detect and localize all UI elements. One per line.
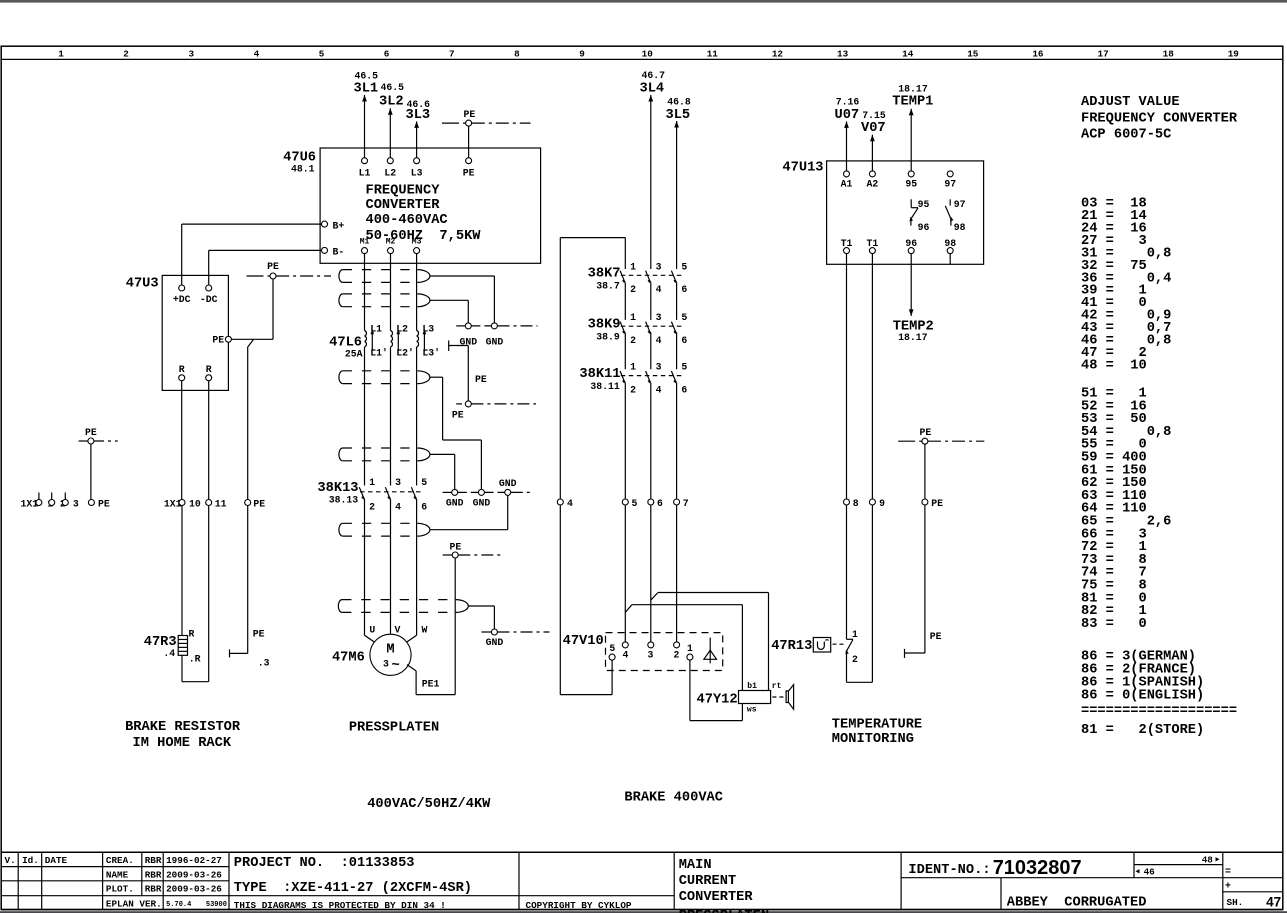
svg-text:2009-03-26: 2009-03-26: [166, 884, 222, 895]
svg-text:400VAC/50HZ/4KW: 400VAC/50HZ/4KW: [367, 797, 491, 812]
svg-text:1: 1: [687, 643, 693, 654]
svg-text:V.: V.: [5, 855, 16, 866]
47U13 pin 96: [908, 248, 914, 254]
svg-text:M2: M2: [386, 237, 396, 246]
wire 4 to 47V10 pin5: [560, 694, 612, 696]
svg-text:81 = 2(STORE): 81 = 2(STORE): [1081, 723, 1204, 738]
wire PE right horizontal: [905, 652, 925, 654]
svg-text:3: 3: [189, 48, 195, 59]
wire bank col3 segment (3L5): [676, 383, 678, 499]
svg-text:L1: L1: [359, 168, 371, 179]
svg-text:RBR: RBR: [145, 869, 162, 880]
wire duct2 GND vertical: [467, 300, 469, 323]
wire M1 seg2: [364, 347, 366, 486]
wire 3L1 to 47U6 L1: [364, 95, 366, 158]
47U6 pin M1: [362, 248, 368, 254]
wire duct2 to GND: [430, 299, 468, 301]
terminal 1X1:1: [36, 500, 42, 506]
box 47U13: [827, 161, 984, 264]
svg-text:46.7: 46.7: [642, 70, 666, 81]
cable duct 1: [339, 270, 430, 283]
PE right line dash-dot: [928, 440, 984, 442]
wire duct3 to GND row2: [480, 440, 482, 489]
wire PE .3 horizontal: [230, 652, 248, 654]
47U3 pin R right: [206, 375, 212, 381]
wire duct6 right: [468, 605, 494, 607]
wire 7 lower to 47V10 pin2: [676, 505, 678, 642]
svg-text:9: 9: [879, 498, 885, 509]
svg-text:15: 15: [967, 48, 979, 59]
arrow 3L1: [362, 95, 367, 102]
wire pin1 down: [689, 660, 691, 721]
svg-text:53900: 53900: [206, 901, 227, 909]
svg-text:RBR: RBR: [145, 884, 162, 895]
node 7: [674, 499, 680, 505]
wire PE left down: [90, 444, 92, 499]
svg-text:3: 3: [73, 498, 79, 509]
svg-text:6: 6: [681, 335, 687, 346]
node PE on wire: [922, 499, 928, 505]
wire below 47R13 contact: [846, 652, 848, 682]
svg-text:SH.: SH.: [1227, 897, 1244, 908]
GND node row 2: [443, 491, 452, 493]
svg-text:2: 2: [123, 48, 129, 59]
title col CREA/RBR divider: [141, 852, 143, 896]
wire pin1 to ws: [690, 720, 743, 722]
47U6 pin L1: [362, 158, 368, 164]
motor 47M6 circle: [370, 634, 411, 675]
svg-text:V: V: [395, 624, 401, 635]
node 4: [557, 499, 563, 505]
svg-text:48 = 10: 48 = 10: [1081, 359, 1147, 374]
svg-text:CURRENT: CURRENT: [679, 874, 737, 889]
svg-text:18.17: 18.17: [898, 332, 928, 343]
svg-text:7.16: 7.16: [836, 97, 860, 108]
svg-text:R: R: [189, 629, 195, 640]
svg-text:NAME: NAME: [106, 869, 129, 880]
wire duct5 right: [430, 529, 508, 531]
svg-text:=: =: [1225, 866, 1231, 877]
svg-text:3L5: 3L5: [666, 108, 691, 123]
svg-text:PE: PE: [463, 168, 475, 179]
svg-text:DATE: DATE: [45, 855, 68, 866]
svg-text:U: U: [369, 624, 375, 635]
wire TEMP1 to 95: [910, 109, 912, 171]
svg-text:PE: PE: [85, 427, 97, 438]
svg-text:RBR: RBR: [145, 855, 162, 866]
PE left line right: [94, 440, 118, 442]
cable duct 4: [339, 448, 430, 461]
svg-text:10: 10: [189, 498, 201, 509]
47R13 linkage dashes: [833, 643, 846, 645]
svg-text:TEMPERATURE: TEMPERATURE: [832, 717, 922, 732]
svg-text:14: 14: [902, 48, 914, 59]
svg-text:V07: V07: [861, 121, 886, 136]
svg-text:46.5: 46.5: [355, 71, 379, 82]
svg-text:-DC: -DC: [200, 294, 218, 305]
svg-text:L3': L3': [422, 347, 440, 358]
wire duct3 down: [442, 377, 444, 440]
svg-text:48.1: 48.1: [291, 164, 315, 175]
svg-text:PRESSPLATEN: PRESSPLATEN: [679, 909, 769, 913]
wire 8 (T1 to 47R13): [846, 254, 848, 640]
svg-text:5: 5: [681, 362, 687, 373]
47U13 pin T1 b: [869, 248, 875, 254]
terminal 1X1:10: [179, 500, 185, 506]
svg-text:1: 1: [369, 477, 375, 488]
svg-text:1: 1: [630, 362, 636, 373]
svg-text:L1': L1': [370, 347, 388, 358]
connector 47V10 dashed box: [606, 633, 723, 671]
svg-text:4: 4: [656, 284, 662, 295]
GND node row 1: [456, 325, 465, 327]
wire PE mid horizontal: [449, 345, 469, 347]
svg-text:MONITORING: MONITORING: [832, 732, 914, 747]
svg-text:46.8: 46.8: [667, 97, 691, 108]
svg-text:PLOT.: PLOT.: [106, 884, 134, 895]
wire bank col2 segment (3L4): [650, 383, 652, 499]
branch diagonal wire A: [651, 593, 658, 601]
svg-text:38.13: 38.13: [329, 495, 359, 506]
arrow 3L3: [414, 121, 419, 128]
resistor 47R3: [178, 636, 187, 656]
svg-text:8: 8: [514, 48, 520, 59]
svg-text:B+: B+: [333, 220, 345, 231]
svg-text:5: 5: [319, 48, 325, 59]
svg-text:GND: GND: [486, 637, 504, 648]
47R13 contact blade: [847, 638, 854, 640]
PE right line left: [898, 440, 922, 442]
node 6: [648, 499, 654, 505]
svg-text:18: 18: [1163, 48, 1175, 59]
svg-text:GND: GND: [473, 498, 491, 509]
svg-text:TEMP1: TEMP1: [892, 95, 933, 110]
arrow TEMP1: [909, 109, 914, 116]
svg-text:COPYRIGHT BY CYKLOP: COPYRIGHT BY CYKLOP: [526, 900, 632, 911]
tick PE right end: [904, 649, 906, 658]
svg-text:4: 4: [254, 48, 260, 59]
svg-text:4: 4: [395, 502, 401, 513]
svg-text:18.17: 18.17: [898, 83, 928, 94]
contact 38K7 5-6: [671, 271, 676, 283]
node 9: [869, 499, 875, 505]
svg-text:83 = 0: 83 = 0: [1081, 617, 1147, 632]
47U3 pin +DC: [179, 285, 185, 291]
svg-text:PE: PE: [267, 261, 279, 272]
svg-text:EPLAN VER.: EPLAN VER.: [106, 899, 162, 910]
svg-text:A2: A2: [867, 179, 879, 190]
PE left line left: [79, 440, 88, 442]
PE top line right dash-dot: [472, 122, 531, 124]
svg-text:47V10: 47V10: [563, 634, 604, 649]
47U6 pin L3: [414, 158, 420, 164]
svg-text:2: 2: [673, 650, 679, 661]
PE mid line left: [247, 275, 270, 277]
cable duct 6 (wide): [338, 600, 468, 613]
wire bank col1 segment: [624, 282, 626, 320]
contact 38K9 3-4: [646, 322, 651, 334]
47V10 pin 3 node: [648, 642, 654, 648]
speaker symbol: [786, 685, 794, 710]
wire duct1 to GND: [430, 275, 494, 277]
title col MAIN/IDENT divider: [900, 852, 902, 909]
svg-text:11: 11: [215, 498, 227, 509]
svg-text:9: 9: [579, 48, 585, 59]
wire M3 seg1: [416, 254, 418, 331]
contact 38K13 5-6: [411, 487, 416, 499]
wire M2 seg2: [390, 347, 392, 486]
wire PE to 47U3: [232, 338, 274, 340]
diode symbol in 47V10: [704, 650, 717, 659]
38K13 linkage dashed: [360, 491, 422, 493]
wire 9 (T1 return): [871, 254, 873, 683]
svg-text:M: M: [386, 643, 394, 658]
wire PE1 up to PE node: [454, 558, 456, 695]
svg-text:2: 2: [369, 502, 375, 513]
title col blank/ABBEY divider: [1000, 878, 1002, 910]
title block bottom line: [1, 909, 1283, 911]
contact 38K7 1-2: [620, 271, 625, 283]
svg-text:U07: U07: [835, 108, 860, 123]
wire B+ horizontal: [182, 223, 322, 225]
PE mid node circle: [270, 273, 276, 279]
svg-text:IDENT-NO.:: IDENT-NO.:: [908, 863, 990, 878]
wire R right upper: [208, 381, 210, 500]
svg-text:.4: .4: [163, 648, 175, 659]
38K9 linkage dashed: [621, 325, 683, 327]
svg-text:47R13: 47R13: [771, 639, 812, 654]
title IDENT row bottom line: [901, 877, 1283, 879]
inductor 47L6 coil L1: [365, 329, 376, 350]
svg-text:CONVERTER: CONVERTER: [366, 198, 441, 213]
wire bank col1 segment: [624, 238, 626, 269]
arrow 3L2: [388, 108, 393, 115]
svg-text:3: 3: [656, 362, 662, 373]
svg-text:16: 16: [1032, 48, 1044, 59]
title row2/row3 line (left): [1, 880, 229, 882]
svg-text:2: 2: [630, 335, 636, 346]
svg-text:7: 7: [449, 48, 455, 59]
contact 38K11 1-2: [620, 371, 625, 383]
cable duct 3: [339, 371, 430, 384]
38K11 linkage dashed: [621, 375, 683, 377]
terminal 1X1:3: [62, 500, 68, 506]
svg-text:47Y12: 47Y12: [697, 693, 738, 708]
wire 96 to TEMP2: [910, 254, 912, 316]
GND node row 3: [481, 631, 491, 633]
svg-text:2: 2: [630, 384, 636, 395]
svg-text:PE1: PE1: [422, 679, 440, 690]
wire R right down: [208, 506, 210, 682]
47V10 pin 5 node: [609, 654, 615, 660]
svg-text:R: R: [179, 364, 185, 375]
contact 38K11 3-4: [646, 371, 651, 383]
svg-text:97: 97: [954, 199, 966, 210]
wire bank col3 segment (3L5): [676, 282, 678, 320]
svg-text:10: 10: [642, 48, 654, 59]
svg-text:L3: L3: [411, 168, 423, 179]
svg-text:98: 98: [954, 222, 966, 233]
title col right divider: [1222, 852, 1224, 909]
svg-text:GND: GND: [499, 478, 517, 489]
svg-text:1X1: 1X1: [21, 498, 39, 509]
svg-text:L2: L2: [384, 168, 396, 179]
tick PE .3 end: [229, 649, 231, 657]
horn 47Y12 body: [739, 691, 771, 704]
wire PE to 47U6 PE: [468, 126, 470, 158]
svg-text:6: 6: [421, 502, 427, 513]
svg-text:38K9: 38K9: [588, 317, 621, 332]
wire 98 stub: [949, 254, 951, 265]
svg-text:71032807: 71032807: [993, 857, 1082, 879]
wire U07 to A1: [846, 121, 848, 170]
wire R left upper: [181, 381, 183, 500]
svg-text:1: 1: [58, 48, 64, 59]
wire bank col3 segment (3L5): [676, 121, 678, 269]
svg-text:5: 5: [632, 498, 638, 509]
bottom page edge bar: [0, 911, 1287, 913]
contact 38K13 3-4: [385, 487, 390, 499]
terminal 1X1:PE right: [245, 500, 251, 506]
PE right node circle: [922, 438, 928, 444]
svg-text:CREA.: CREA.: [106, 855, 134, 866]
svg-text:96: 96: [918, 222, 930, 233]
svg-text:5: 5: [681, 261, 687, 272]
wire duct3 jog: [443, 439, 482, 441]
wire M3 seg2: [416, 347, 418, 486]
47U3 pin PE: [225, 336, 231, 342]
svg-text:2: 2: [630, 284, 636, 295]
svg-text:.3: .3: [258, 657, 270, 668]
svg-text:25A: 25A: [345, 349, 363, 360]
wire B- horizontal: [209, 249, 322, 251]
svg-text:95: 95: [918, 199, 930, 210]
internal contact 97-98: [945, 199, 953, 225]
cable duct 2: [339, 294, 430, 307]
wire PE branch diagonal: [248, 339, 254, 347]
PE node mid: [456, 403, 462, 405]
wire A down to 47Y12: [768, 593, 770, 691]
svg-text:3: 3: [383, 659, 389, 670]
wire resistor loop bottom: [182, 681, 209, 683]
svg-text:3L3: 3L3: [406, 108, 431, 123]
wire bank col2 segment (3L4): [650, 95, 652, 269]
47U6 pin PE top: [466, 158, 472, 164]
wire B horizontal: [632, 604, 743, 606]
arrow V07: [870, 135, 875, 142]
svg-text:L1: L1: [370, 324, 382, 335]
svg-text:1996-02-27: 1996-02-27: [166, 855, 222, 866]
svg-text:BRAKE 400VAC: BRAKE 400VAC: [624, 791, 723, 806]
top page edge bar: [0, 0, 1287, 3]
title 46 arrow: [1136, 869, 1142, 873]
PE top node circle: [466, 120, 472, 126]
svg-text:47M6: 47M6: [332, 650, 365, 665]
contact 38K9 5-6: [671, 322, 676, 334]
svg-text:M1: M1: [360, 237, 370, 246]
svg-text:B-: B-: [333, 246, 345, 257]
svg-text:R: R: [206, 364, 212, 375]
47U13 pin 98: [947, 248, 953, 254]
svg-text:~: ~: [392, 659, 400, 674]
svg-text:PE: PE: [931, 498, 943, 509]
svg-text:6: 6: [681, 284, 687, 295]
wire PE branch down to 1X1: [247, 347, 249, 499]
svg-text:ABBEY CORRUGATED: ABBEY CORRUGATED: [1007, 896, 1147, 911]
47U6 pin L2: [387, 158, 393, 164]
inductor 47L6 coil L2: [391, 329, 402, 350]
terminal 1X1:2: [49, 500, 55, 506]
svg-text:7: 7: [683, 498, 689, 509]
wire bank col2 segment (3L4): [650, 282, 652, 320]
svg-text:47U3: 47U3: [126, 277, 159, 292]
title row1/row2 line (left): [1, 866, 229, 868]
terminal 1 stub: [38, 493, 40, 500]
svg-text:7.15: 7.15: [862, 110, 886, 121]
wire loop top: [560, 237, 625, 239]
47U6 pin M2: [388, 248, 394, 254]
svg-text:PROJECT NO. :01133853: PROJECT NO. :01133853: [234, 856, 415, 871]
svg-text:FREQUENCY: FREQUENCY: [366, 183, 441, 198]
svg-text:PE: PE: [253, 629, 265, 640]
title col PROJECT/blank divider: [518, 852, 520, 909]
svg-text:5: 5: [421, 477, 427, 488]
svg-text:1: 1: [630, 312, 636, 323]
svg-text:THIS DIAGRAMS IS PROTECTED BY: THIS DIAGRAMS IS PROTECTED BY DIN 34 !: [234, 900, 446, 911]
svg-text:8: 8: [853, 498, 859, 509]
wire A horizontal: [658, 592, 769, 594]
svg-text:ws: ws: [747, 706, 757, 715]
title row3/row4 line: [1, 895, 674, 897]
svg-text:5: 5: [681, 312, 687, 323]
svg-text:PE: PE: [930, 631, 942, 642]
title +/SH cell line: [1223, 891, 1283, 893]
47V10 pin 2 node: [674, 642, 680, 648]
svg-text:38.9: 38.9: [596, 331, 620, 342]
wire PE1 bottom: [416, 694, 455, 696]
svg-text:97: 97: [944, 179, 956, 190]
svg-text:11: 11: [707, 48, 719, 59]
svg-text:4: 4: [656, 335, 662, 346]
wire ws down: [741, 704, 743, 721]
wire PE right down: [924, 444, 926, 653]
wire W diagonal into motor: [407, 635, 417, 642]
PE mid line right dash-dot: [276, 275, 331, 277]
wire 3L2 to 47U6 L2: [389, 108, 391, 158]
svg-text:6: 6: [384, 48, 390, 59]
wire R left to resistor: [181, 506, 183, 636]
svg-text:GND: GND: [486, 337, 504, 348]
svg-text:400-460VAC: 400-460VAC: [366, 213, 448, 228]
svg-text:4: 4: [567, 498, 573, 509]
wire duct1 GND vertical: [493, 276, 495, 323]
svg-text:.R: .R: [189, 654, 201, 665]
svg-text:3: 3: [648, 650, 654, 661]
svg-text:19: 19: [1228, 48, 1240, 59]
wire PE to .3: [247, 506, 249, 654]
title 48 arrow: [1214, 857, 1220, 861]
svg-text:TYPE :XZE-411-27 (2XCFM-4SR): TYPE :XZE-411-27 (2XCFM-4SR): [234, 881, 472, 896]
svg-text:38.11: 38.11: [590, 381, 620, 392]
svg-text:6: 6: [657, 498, 663, 509]
svg-text:38K11: 38K11: [579, 367, 620, 382]
47V10 pin 1 node: [687, 654, 693, 660]
svg-text:GND: GND: [446, 498, 464, 509]
wire B+ vertical to +DC: [181, 224, 183, 285]
svg-text:PE: PE: [253, 498, 265, 509]
47U13 pin T1 a: [844, 248, 850, 254]
title col Id./DATE divider: [41, 852, 43, 909]
